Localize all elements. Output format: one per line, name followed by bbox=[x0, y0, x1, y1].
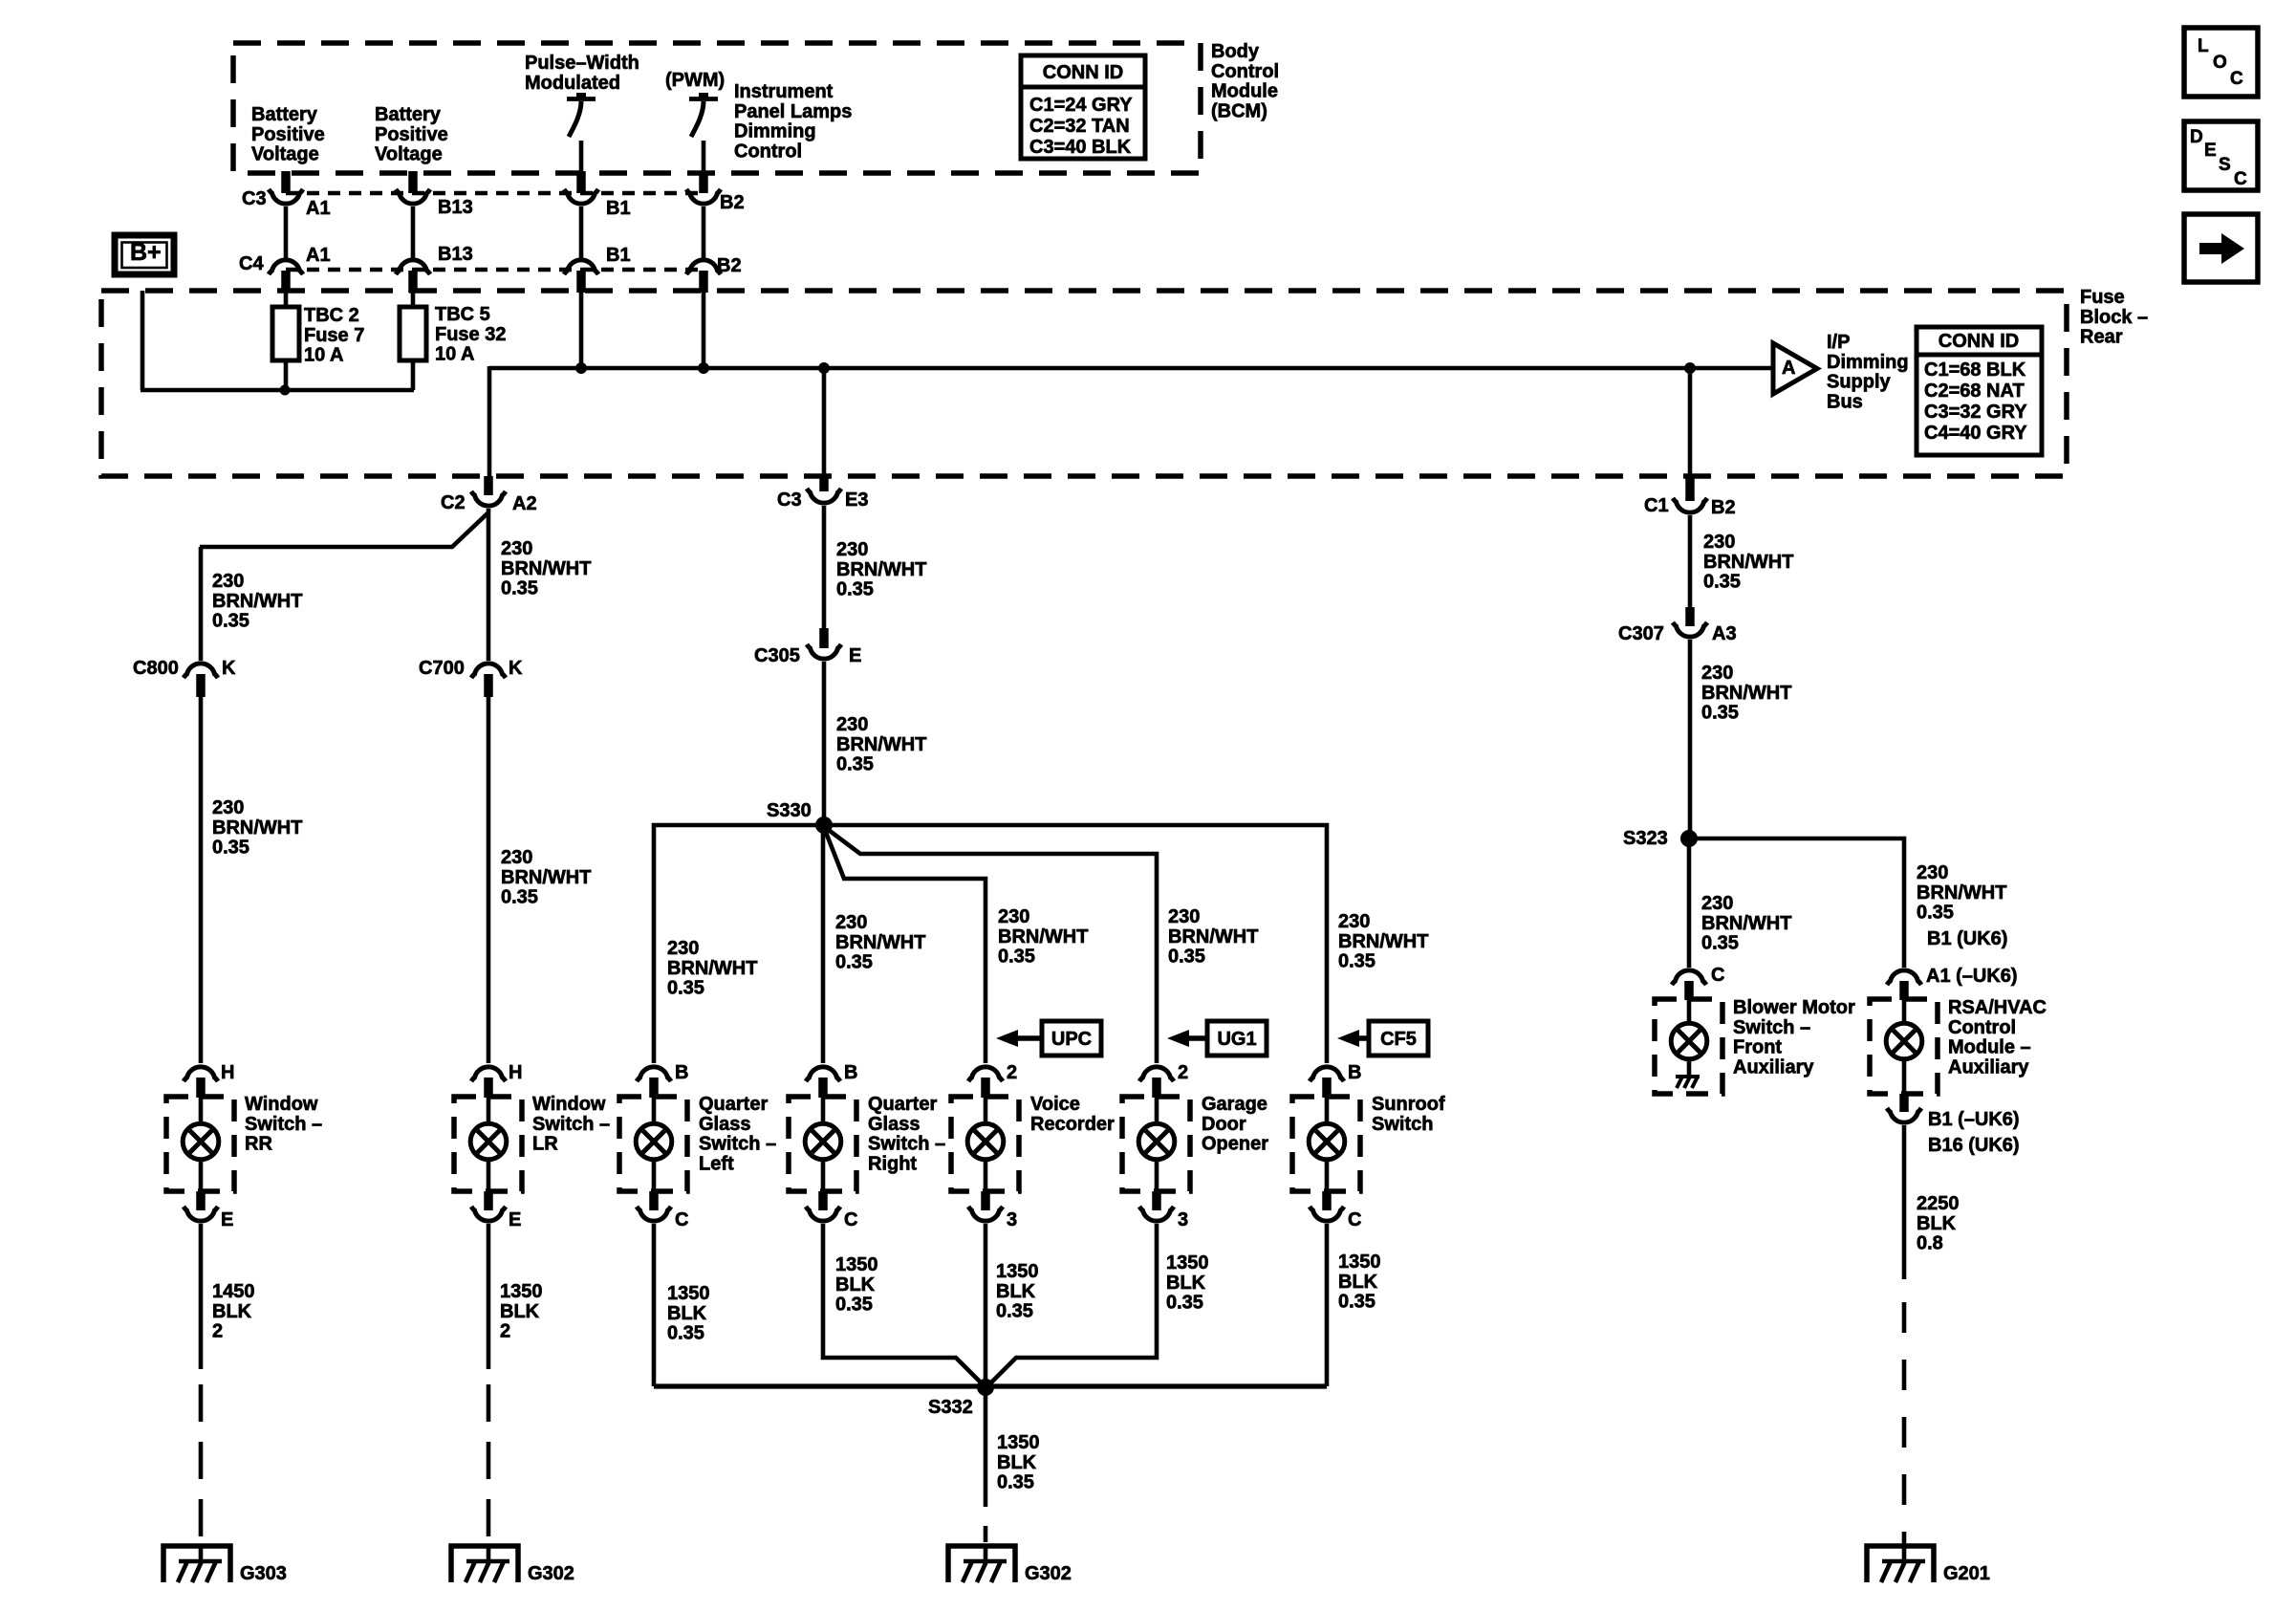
svg-text:A: A bbox=[1782, 358, 1795, 379]
svg-text:E3: E3 bbox=[845, 490, 868, 511]
svg-text:C2: C2 bbox=[441, 492, 466, 513]
svg-text:Control: Control bbox=[734, 141, 802, 162]
svg-text:C: C bbox=[1348, 1209, 1361, 1230]
svg-text:C3: C3 bbox=[242, 188, 267, 209]
svg-text:0.35: 0.35 bbox=[1338, 951, 1375, 972]
svg-text:Right: Right bbox=[868, 1153, 917, 1174]
svg-text:3: 3 bbox=[1007, 1209, 1017, 1230]
wire between connector rows x=299 bbox=[284, 207, 289, 258]
wire stub into fuse block x=608 bbox=[576, 271, 586, 293]
wire S330 left arm to quarter glass left bbox=[654, 825, 824, 1063]
wire S323 down to blower motor switch bbox=[1687, 838, 1692, 968]
svg-text:Rear: Rear bbox=[2080, 327, 2123, 348]
connector C4 half (cap) pin A1 wire bbox=[269, 260, 303, 274]
svg-text:B13: B13 bbox=[438, 244, 473, 265]
terminal box: B+ bbox=[115, 235, 174, 274]
svg-text:B16 (UK6): B16 (UK6) bbox=[1928, 1135, 2020, 1156]
connector cap pin H (window switch RR) bbox=[184, 1067, 218, 1081]
svg-text:2: 2 bbox=[1178, 1062, 1188, 1083]
svg-text:C: C bbox=[675, 1209, 688, 1230]
wire stub into fuse block x=299 bbox=[281, 271, 291, 293]
wire C307 down to S323 bbox=[1688, 640, 1693, 838]
wire B2 drop to dimming bus bbox=[702, 293, 706, 368]
wire stub into fuse block x=736 bbox=[699, 271, 708, 293]
wire dashed to G302 (left) bbox=[487, 1384, 491, 1536]
svg-text:0.35: 0.35 bbox=[835, 952, 873, 973]
wire dashed to G201 bbox=[1902, 1302, 1907, 1545]
svg-text:2: 2 bbox=[1007, 1062, 1017, 1083]
device box: Window Switch - RR bbox=[166, 1097, 234, 1191]
svg-text:10 A: 10 A bbox=[435, 344, 475, 365]
svg-text:0.35: 0.35 bbox=[667, 978, 704, 999]
svg-text:B1 (UK6): B1 (UK6) bbox=[1927, 928, 2007, 949]
svg-text:BRN/WHT: BRN/WHT bbox=[998, 926, 1088, 947]
ground G302 (middle) bbox=[948, 1546, 1072, 1584]
svg-text:0.35: 0.35 bbox=[998, 947, 1035, 968]
connector half cap at B13 (lower) bbox=[396, 260, 430, 274]
device box: RSA/HVAC Control Module - Auxiliary bbox=[1870, 999, 1938, 1094]
svg-text:LR: LR bbox=[532, 1134, 558, 1155]
wire stub out of RSA/HVAC module bbox=[1899, 1094, 1909, 1112]
legend box: LOC bbox=[2184, 28, 2258, 97]
wire C1/B2 down to C307 bbox=[1688, 515, 1693, 607]
svg-text:230: 230 bbox=[212, 797, 244, 818]
wire garage door opener to S332 bbox=[988, 1224, 1157, 1385]
svg-text:1450: 1450 bbox=[212, 1281, 255, 1302]
wire between connector rows x=736 bbox=[702, 207, 706, 258]
svg-text:BLK: BLK bbox=[996, 1281, 1036, 1302]
svg-text:C1: C1 bbox=[1644, 495, 1669, 516]
wire stub into garage door opener bbox=[1152, 1078, 1161, 1098]
svg-text:Window: Window bbox=[245, 1094, 318, 1115]
wire C3/E3 down to C305 bbox=[822, 506, 827, 628]
svg-text:(BCM): (BCM) bbox=[1211, 100, 1267, 121]
connector cup pin C (quarter glass switch left) bbox=[637, 1207, 671, 1221]
svg-text:0.35: 0.35 bbox=[1701, 933, 1739, 954]
wire stub into voice recorder bbox=[981, 1078, 990, 1098]
connector cup pin C (quarter glass switch right) bbox=[806, 1207, 840, 1221]
svg-text:3: 3 bbox=[1178, 1209, 1188, 1230]
wire S330 arm to garage door opener bbox=[826, 828, 1157, 1063]
connector C3 cup (pin E3) bbox=[807, 489, 841, 503]
lamp: garage door opener illumination bulb bbox=[1138, 1097, 1175, 1191]
svg-text:S330: S330 bbox=[767, 800, 812, 821]
svg-text:Quarter: Quarter bbox=[868, 1094, 937, 1115]
svg-text:0.35: 0.35 bbox=[836, 579, 874, 600]
wire bus drop to C3-E3 bbox=[822, 368, 827, 476]
device box: quarter glass switch left bbox=[619, 1097, 687, 1191]
fuse TBC2 (Fuse 7 10A) body bbox=[272, 307, 299, 360]
svg-text:0.35: 0.35 bbox=[835, 1295, 873, 1316]
svg-text:C307: C307 bbox=[1618, 623, 1664, 644]
ground G302 (left) bbox=[451, 1546, 574, 1584]
wire fuse TBC5 bottom lead bbox=[411, 360, 416, 390]
svg-text:Control: Control bbox=[1211, 61, 1279, 82]
svg-text:G302: G302 bbox=[1025, 1563, 1072, 1584]
connector C307 cup (pin A3) bbox=[1673, 622, 1707, 637]
svg-text:230: 230 bbox=[836, 539, 868, 560]
wire stub below C700 bbox=[484, 674, 493, 697]
svg-text:A1: A1 bbox=[306, 198, 331, 219]
wire stub below C800 bbox=[196, 674, 206, 697]
svg-text:230: 230 bbox=[667, 938, 699, 959]
svg-text:BRN/WHT: BRN/WHT bbox=[1701, 913, 1791, 934]
svg-text:BRN/WHT: BRN/WHT bbox=[212, 591, 302, 612]
svg-text:Left: Left bbox=[699, 1153, 734, 1174]
svg-text:BLK: BLK bbox=[667, 1303, 707, 1324]
svg-text:A1 (–UK6): A1 (–UK6) bbox=[1926, 966, 2018, 987]
svg-text:BRN/WHT: BRN/WHT bbox=[836, 559, 926, 580]
svg-text:230: 230 bbox=[1701, 893, 1733, 914]
svg-text:230: 230 bbox=[212, 571, 244, 592]
svg-text:2: 2 bbox=[212, 1321, 223, 1342]
svg-text:1350: 1350 bbox=[996, 1261, 1039, 1282]
svg-text:L: L bbox=[2198, 36, 2209, 56]
svg-text:BRN/WHT: BRN/WHT bbox=[835, 932, 925, 953]
svg-text:B1: B1 bbox=[606, 245, 631, 266]
svg-text:230: 230 bbox=[1917, 862, 1948, 883]
svg-text:B13: B13 bbox=[438, 197, 473, 218]
svg-text:230: 230 bbox=[1703, 532, 1735, 553]
svg-text:Module: Module bbox=[1211, 81, 1278, 102]
svg-text:Block –: Block – bbox=[2080, 307, 2148, 328]
wire sunroof switch down to merge line bbox=[1325, 1224, 1330, 1386]
table: CONN ID (BCM connectors) bbox=[1021, 55, 1145, 159]
callout arrow tag UPC (voice recorder) bbox=[996, 1021, 1101, 1056]
device box: Blower Motor Switch - Front Auxiliary bbox=[1655, 999, 1722, 1094]
connector cup pin E (LR) bbox=[471, 1207, 506, 1221]
lamp: quarter glass switch left illumination bulb bbox=[636, 1097, 672, 1191]
dashed connector row line (lower, C4 row) bbox=[286, 268, 704, 272]
svg-text:Fuse 32: Fuse 32 bbox=[435, 324, 506, 345]
callout arrow tag UG1 (garage door opener) bbox=[1167, 1021, 1267, 1056]
svg-text:BLK: BLK bbox=[1917, 1213, 1957, 1234]
connector half cap at B1 (lower) bbox=[564, 260, 598, 274]
svg-text:C2=32 TAN: C2=32 TAN bbox=[1029, 116, 1130, 137]
svg-text:1350: 1350 bbox=[835, 1254, 878, 1275]
wire between connector rows x=608 bbox=[579, 207, 584, 258]
svg-text:230: 230 bbox=[835, 912, 867, 933]
connector cup pin E (RR) bbox=[184, 1207, 218, 1221]
svg-text:C1=68 BLK: C1=68 BLK bbox=[1924, 359, 2026, 381]
svg-text:0.8: 0.8 bbox=[1917, 1233, 1943, 1254]
fuse TBC5 (Fuse 32 10A) body bbox=[400, 307, 426, 360]
svg-text:Blower Motor: Blower Motor bbox=[1733, 997, 1855, 1018]
lamp: window switch LR illumination bulb bbox=[470, 1097, 507, 1191]
svg-text:B2: B2 bbox=[717, 255, 742, 276]
junction dot below fuse TBC2 bbox=[280, 385, 291, 396]
svg-text:C700: C700 bbox=[419, 658, 465, 679]
svg-text:Switch –: Switch – bbox=[245, 1114, 322, 1135]
svg-text:C: C bbox=[2230, 69, 2243, 89]
svg-text:Body: Body bbox=[1211, 41, 1260, 62]
splice S330 junction dot bbox=[815, 816, 833, 834]
svg-text:C3: C3 bbox=[777, 490, 802, 511]
junction dot bus/C1-B2 drop bbox=[1684, 362, 1696, 374]
wire into ground G302 (middle) bbox=[984, 1546, 988, 1561]
wire stub into fuse block x=432 bbox=[408, 271, 418, 293]
wire fuse TBC5 top lead bbox=[411, 293, 416, 309]
connector cap pin H (window switch LR) bbox=[471, 1067, 506, 1081]
svg-text:TBC 2: TBC 2 bbox=[304, 305, 359, 326]
device box: Window Switch - LR bbox=[454, 1097, 522, 1191]
svg-text:C800: C800 bbox=[133, 658, 179, 679]
svg-text:230: 230 bbox=[1168, 906, 1200, 927]
svg-text:C2=68 NAT: C2=68 NAT bbox=[1924, 381, 2025, 402]
svg-text:0.35: 0.35 bbox=[1701, 703, 1739, 724]
wire fuse TBC2 top lead bbox=[284, 293, 289, 309]
svg-text:0.35: 0.35 bbox=[836, 754, 874, 775]
connector cup pin 3 (voice recorder) bbox=[968, 1207, 1003, 1221]
wire below E (RR) bbox=[199, 1224, 204, 1369]
wire stub into sunroof switch bbox=[1322, 1078, 1332, 1098]
svg-text:RSA/HVAC: RSA/HVAC bbox=[1948, 997, 2047, 1018]
svg-text:BLK: BLK bbox=[212, 1301, 252, 1322]
svg-text:Panel Lamps: Panel Lamps bbox=[734, 101, 852, 122]
svg-text:0.35: 0.35 bbox=[501, 578, 538, 599]
connector half cup at B1 (upper) bbox=[564, 189, 598, 204]
svg-text:230: 230 bbox=[501, 847, 532, 868]
connector cap pin C (blower motor switch) bbox=[1672, 970, 1706, 985]
ground G303 bbox=[163, 1546, 287, 1584]
connector C3 half (cup) pin A1 wire bbox=[269, 189, 303, 204]
svg-text:Switch –: Switch – bbox=[1733, 1017, 1810, 1038]
connector cap pin B (quarter glass switch left) bbox=[637, 1067, 671, 1081]
device box: quarter glass switch right bbox=[789, 1097, 856, 1191]
wire stub fuse block to C1 connector bbox=[1685, 476, 1695, 501]
svg-text:0.35: 0.35 bbox=[212, 838, 249, 859]
switch: PWM driver symbol (B2 output) bbox=[689, 93, 718, 174]
wire stub above C307 bbox=[1685, 607, 1695, 626]
svg-text:0.35: 0.35 bbox=[1703, 572, 1741, 593]
splice S323 junction dot bbox=[1680, 830, 1698, 847]
wire stub into window switch RR bbox=[196, 1078, 206, 1098]
svg-text:Garage: Garage bbox=[1202, 1094, 1267, 1115]
svg-text:C1=24 GRY: C1=24 GRY bbox=[1029, 95, 1133, 116]
junction dot B2/bus bbox=[698, 362, 709, 374]
wire stub out of quarter glass switch left bbox=[649, 1191, 659, 1210]
svg-text:Module –: Module – bbox=[1948, 1037, 2031, 1058]
svg-text:Front: Front bbox=[1733, 1037, 1782, 1058]
svg-text:D: D bbox=[2190, 127, 2203, 147]
wire dashed to G303 bbox=[199, 1384, 204, 1536]
svg-text:C: C bbox=[1711, 965, 1724, 986]
svg-text:BLK: BLK bbox=[1166, 1273, 1206, 1294]
svg-text:C4=40 GRY: C4=40 GRY bbox=[1924, 423, 2027, 444]
svg-text:CF5: CF5 bbox=[1380, 1029, 1417, 1050]
svg-text:BLK: BLK bbox=[997, 1452, 1037, 1473]
svg-text:A2: A2 bbox=[512, 493, 537, 514]
junction dot B1/bus bbox=[575, 362, 587, 374]
svg-text:Voltage: Voltage bbox=[251, 144, 319, 165]
wire stub from BCM at x=736 bbox=[699, 171, 708, 193]
svg-text:C305: C305 bbox=[754, 645, 800, 666]
wire below E (LR) bbox=[487, 1224, 491, 1369]
svg-text:Glass: Glass bbox=[868, 1114, 920, 1135]
svg-text:I/P: I/P bbox=[1827, 332, 1850, 353]
wire B1 drop to dimming bus bbox=[579, 293, 584, 368]
svg-text:BRN/WHT: BRN/WHT bbox=[1168, 926, 1258, 947]
svg-text:Switch –: Switch – bbox=[868, 1134, 945, 1155]
svg-text:E: E bbox=[849, 645, 861, 666]
svg-text:S332: S332 bbox=[928, 1397, 973, 1418]
switch: PWM driver symbol (B1 output) bbox=[567, 93, 596, 174]
wire stub fuse block to C3 connector bbox=[819, 476, 829, 491]
svg-text:K: K bbox=[222, 658, 236, 679]
wire stub into quarter glass switch right bbox=[818, 1078, 828, 1098]
wire stub into RSA/HVAC module bbox=[1899, 981, 1909, 1000]
junction dot bus/C3-E3 drop bbox=[818, 362, 830, 374]
svg-text:230: 230 bbox=[1338, 911, 1370, 932]
legend box: DESC bbox=[2184, 121, 2258, 190]
svg-text:230: 230 bbox=[501, 538, 532, 559]
wire diagonal branch from A2 to left run bbox=[200, 512, 488, 547]
lamp: quarter glass switch right illumination bulb bbox=[805, 1097, 841, 1191]
svg-text:K: K bbox=[509, 658, 523, 679]
wire B+ feed horizontal bbox=[141, 388, 414, 393]
wire stub out of voice recorder bbox=[981, 1191, 990, 1210]
svg-text:A3: A3 bbox=[1712, 623, 1737, 644]
wire stub out of window switch LR bbox=[484, 1191, 493, 1210]
connector half cap at B2 (lower) bbox=[686, 260, 721, 274]
svg-text:Voice: Voice bbox=[1030, 1094, 1080, 1115]
svg-text:0.35: 0.35 bbox=[667, 1323, 704, 1344]
svg-text:UPC: UPC bbox=[1051, 1029, 1092, 1050]
svg-text:Bus: Bus bbox=[1827, 391, 1863, 412]
connector C1 cup (pin B2) bbox=[1673, 498, 1707, 512]
connector cap pin A1/B1 (RSA/HVAC) bbox=[1887, 970, 1921, 985]
lamp: voice recorder illumination bulb bbox=[967, 1097, 1004, 1191]
svg-text:Dimming: Dimming bbox=[734, 121, 816, 142]
svg-text:Switch: Switch bbox=[1372, 1114, 1433, 1135]
svg-text:E: E bbox=[2204, 141, 2217, 161]
connector cap pin B (quarter glass switch right) bbox=[806, 1067, 840, 1081]
wire C305 down to S330 bbox=[822, 662, 827, 825]
ground G201 bbox=[1867, 1546, 1990, 1584]
svg-text:CONN ID: CONN ID bbox=[1939, 331, 2019, 352]
lamp: RSA/HVAC module illumination bulb bbox=[1886, 999, 1922, 1094]
wire below RSA/HVAC module bbox=[1902, 1125, 1907, 1279]
wire C2/A2 down to C700 bbox=[487, 509, 491, 661]
svg-text:230: 230 bbox=[836, 714, 868, 735]
lamp: sunroof switch illumination bulb bbox=[1309, 1097, 1345, 1191]
svg-text:0.35: 0.35 bbox=[1168, 947, 1205, 968]
connector C305 cup (pin E) bbox=[807, 644, 841, 659]
svg-text:0.35: 0.35 bbox=[1917, 903, 1954, 924]
svg-text:TBC 5: TBC 5 bbox=[435, 304, 490, 325]
module box: Body Control Module (BCM), dashed outline bbox=[233, 43, 1201, 173]
svg-text:Instrument: Instrument bbox=[734, 81, 834, 102]
svg-text:10 A: 10 A bbox=[304, 345, 344, 366]
wire stub out of sunroof switch bbox=[1322, 1191, 1332, 1210]
device box: garage door opener bbox=[1122, 1097, 1190, 1191]
wire dash above G302 (middle) bbox=[984, 1526, 988, 1542]
svg-text:Sunroof: Sunroof bbox=[1372, 1094, 1445, 1115]
wire S330 right arm to sunroof switch bbox=[824, 825, 1327, 1063]
svg-text:BRN/WHT: BRN/WHT bbox=[1917, 882, 2006, 903]
svg-text:CONN ID: CONN ID bbox=[1043, 62, 1123, 83]
device box: sunroof switch bbox=[1292, 1097, 1360, 1191]
svg-text:B1 (–UK6): B1 (–UK6) bbox=[1928, 1109, 2020, 1130]
svg-text:Quarter: Quarter bbox=[699, 1094, 768, 1115]
wire voice recorder down to S332 bbox=[984, 1224, 988, 1388]
svg-text:Dimming: Dimming bbox=[1827, 352, 1909, 373]
lamp: window switch RR illumination bulb bbox=[183, 1097, 219, 1191]
svg-text:H: H bbox=[509, 1062, 522, 1083]
ground inside blower motor switch box bbox=[1676, 1077, 1700, 1088]
wire stub into window switch LR bbox=[484, 1078, 493, 1098]
wire stub above C305 bbox=[819, 628, 829, 648]
wire quarter glass left down to merge line bbox=[652, 1224, 657, 1386]
svg-text:G201: G201 bbox=[1943, 1563, 1990, 1584]
svg-text:B: B bbox=[844, 1062, 857, 1083]
svg-text:2250: 2250 bbox=[1917, 1193, 1960, 1214]
table: CONN ID (fuse block connectors) bbox=[1917, 327, 2042, 455]
svg-text:E: E bbox=[221, 1209, 233, 1230]
device box: voice recorder bbox=[951, 1097, 1019, 1191]
callout arrow tag CF5 (sunroof switch) bbox=[1337, 1021, 1428, 1056]
connector C800 cap (pin K) bbox=[184, 664, 218, 678]
svg-text:G302: G302 bbox=[528, 1563, 574, 1584]
svg-text:BRN/WHT: BRN/WHT bbox=[667, 958, 757, 979]
svg-text:0.35: 0.35 bbox=[212, 611, 249, 632]
svg-text:Auxiliary: Auxiliary bbox=[1948, 1056, 2029, 1078]
connector C2 cup (pin A2) bbox=[471, 491, 506, 506]
svg-text:G303: G303 bbox=[240, 1563, 287, 1584]
svg-text:1350: 1350 bbox=[667, 1283, 710, 1304]
connector cap pin 2 (garage door opener) bbox=[1139, 1067, 1174, 1081]
wire from B+ down bbox=[141, 291, 145, 390]
svg-text:BRN/WHT: BRN/WHT bbox=[501, 867, 591, 888]
svg-text:B2: B2 bbox=[1711, 497, 1736, 518]
svg-text:Control: Control bbox=[1948, 1017, 2016, 1038]
svg-text:Fuse: Fuse bbox=[2080, 287, 2125, 308]
svg-text:Switch –: Switch – bbox=[699, 1134, 776, 1155]
svg-text:BRN/WHT: BRN/WHT bbox=[1703, 552, 1793, 573]
svg-text:Positive: Positive bbox=[375, 124, 448, 145]
svg-text:S: S bbox=[2219, 155, 2231, 175]
wire into ground G201 bbox=[1902, 1546, 1907, 1561]
node A: dimming supply bus triangle bbox=[1773, 343, 1817, 394]
svg-text:Pulse–Width: Pulse–Width bbox=[525, 53, 639, 74]
wire stub from BCM at x=299 bbox=[281, 171, 291, 193]
svg-text:Window: Window bbox=[532, 1094, 606, 1115]
wire stub out of window switch RR bbox=[196, 1191, 206, 1210]
svg-text:BRN/WHT: BRN/WHT bbox=[501, 558, 591, 579]
svg-text:Fuse 7: Fuse 7 bbox=[304, 325, 364, 346]
svg-text:UG1: UG1 bbox=[1217, 1029, 1256, 1050]
wire stub from BCM at x=432 bbox=[408, 171, 418, 193]
wire stub into quarter glass switch left bbox=[649, 1078, 659, 1098]
wire left run corner down to C800 bbox=[199, 547, 204, 661]
wire stub out of garage door opener bbox=[1152, 1191, 1161, 1210]
svg-text:O: O bbox=[2213, 53, 2227, 73]
wire S332 merge line bbox=[654, 1383, 1327, 1388]
svg-text:B+: B+ bbox=[130, 239, 162, 266]
svg-text:C: C bbox=[2234, 169, 2247, 189]
wire stub fuse block to C2 connector bbox=[484, 476, 493, 495]
svg-text:Voltage: Voltage bbox=[375, 144, 443, 165]
svg-text:BLK: BLK bbox=[500, 1301, 540, 1322]
svg-text:230: 230 bbox=[998, 906, 1029, 927]
svg-text:BRN/WHT: BRN/WHT bbox=[1701, 683, 1791, 704]
wire fuse TBC2 bottom lead bbox=[284, 360, 289, 390]
svg-text:Supply: Supply bbox=[1827, 372, 1892, 393]
svg-text:BRN/WHT: BRN/WHT bbox=[1338, 931, 1428, 952]
svg-text:Modulated: Modulated bbox=[525, 73, 620, 94]
wire between connector rows x=432 bbox=[411, 207, 416, 258]
svg-text:(PWM): (PWM) bbox=[665, 70, 725, 91]
